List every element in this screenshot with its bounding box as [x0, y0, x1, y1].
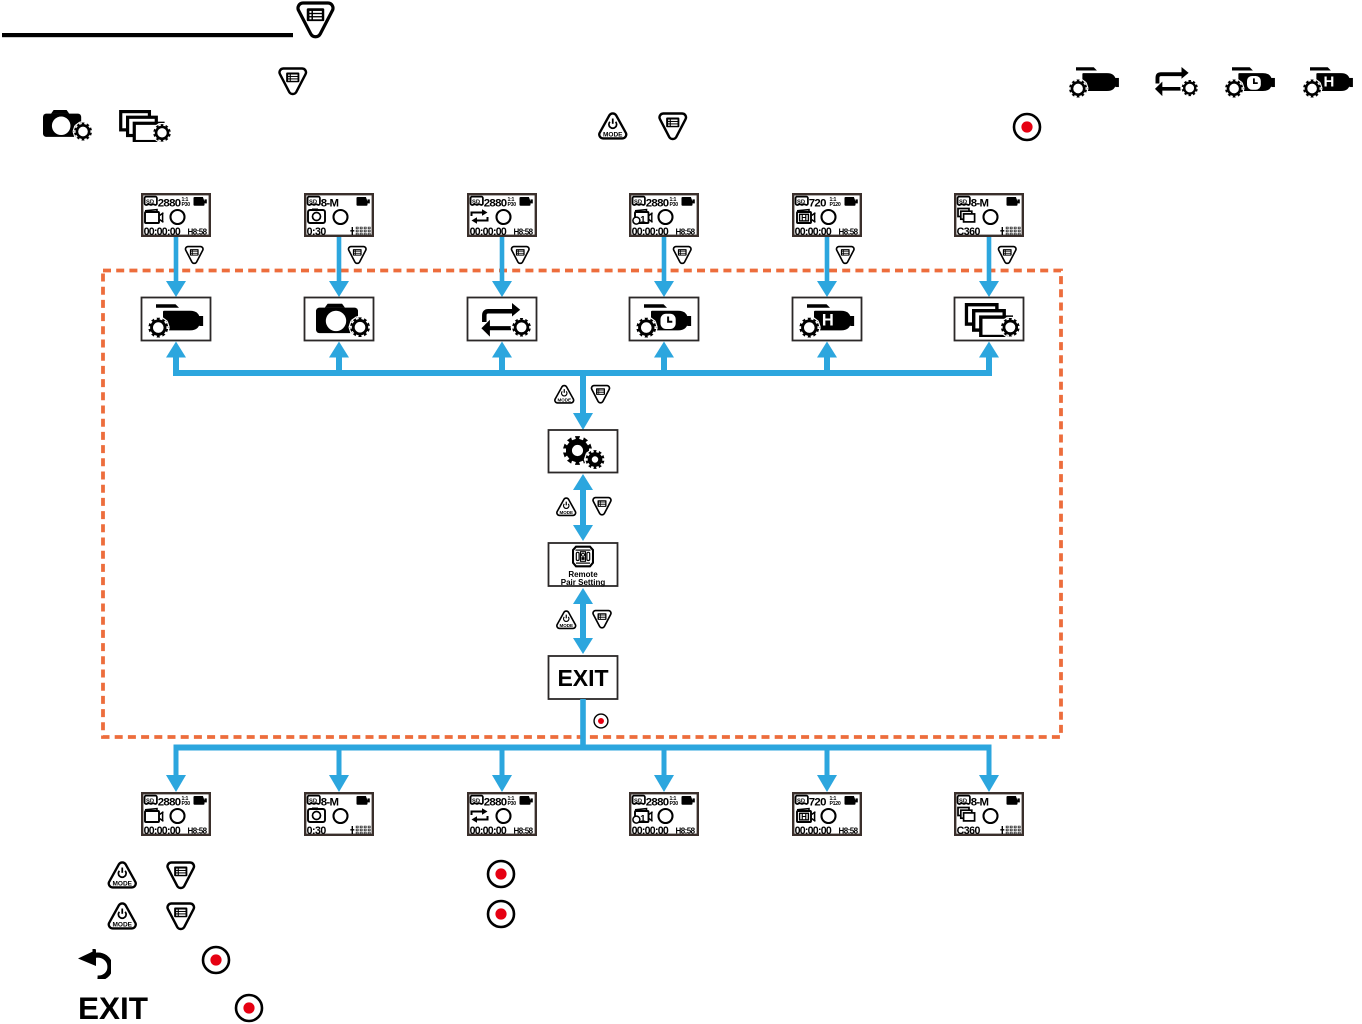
movie settings mode box — [142, 298, 211, 341]
blue arrow LCD to movie box — [166, 237, 186, 297]
burst settings icon (box) — [966, 305, 1019, 337]
EXIT label — [557, 665, 608, 691]
LCD screen bottom (movie mode) — [142, 793, 210, 837]
blue up arrow into interval box — [654, 342, 674, 374]
MENU icon row2 — [168, 904, 194, 929]
small MENU icon (interval column) — [674, 247, 691, 264]
blue up arrow into burst box — [979, 342, 999, 374]
remote pair icon — [573, 547, 593, 567]
blue arrow to bottom LCD (high-speed) — [817, 750, 837, 792]
LCD screen bottom (high-speed mode) — [793, 793, 861, 837]
small MENU icon (to settings) — [592, 386, 610, 403]
LCD screen bottom (interval mode) — [630, 793, 698, 837]
EXIT box — [549, 656, 618, 699]
LCD screen bottom (burst mode) — [955, 793, 1023, 837]
movie settings icon (inline) — [1069, 67, 1119, 97]
orange dashed region — [103, 271, 1061, 738]
blue up arrow into photo box — [329, 342, 349, 374]
loop settings mode box — [468, 298, 537, 341]
burst settings mode box — [955, 298, 1024, 341]
photo settings icon (inline) — [43, 110, 92, 140]
REC button icon (line 3) — [1014, 114, 1040, 140]
blue arrow to bottom LCD (movie) — [166, 750, 186, 792]
LCD screen top (interval mode) — [630, 194, 698, 238]
interval settings icon (box) — [636, 304, 691, 337]
loop settings icon (inline) — [1155, 67, 1198, 96]
small MODE icon (exit) — [557, 611, 576, 628]
MODE icon row1 — [109, 862, 136, 887]
small MODE icon (to settings) — [555, 386, 574, 403]
small MENU icon (exit) — [593, 611, 611, 628]
small MENU icon (pair) — [593, 498, 611, 515]
blue arrow LCD to interval box — [654, 237, 674, 297]
interval settings mode box — [630, 298, 699, 341]
small MENU icon (photo column) — [349, 247, 366, 264]
high-speed settings icon (inline) — [1303, 67, 1353, 97]
blue arrow LCD to high-speed box — [817, 237, 837, 297]
camera settings box — [549, 430, 618, 473]
MENU button icon (line 2) — [280, 69, 306, 94]
LCD screen bottom (photo mode) — [305, 793, 373, 837]
small REC icon (exit line) — [594, 714, 608, 728]
high-speed settings mode box — [793, 298, 862, 341]
double arrow pair/exit — [573, 588, 593, 654]
title rule — [2, 33, 293, 37]
MENU icon row1 — [168, 863, 194, 888]
blue up arrow into movie box — [166, 342, 186, 374]
blue arrow to bottom LCD (photo) — [329, 750, 349, 792]
LCD screen top (photo mode) — [305, 194, 373, 238]
blue up arrow into loop box — [492, 342, 512, 374]
LCD screen top (burst mode) — [955, 194, 1023, 238]
REC icon row2 — [488, 901, 514, 927]
loop settings icon (box) — [481, 303, 530, 337]
REC icon row1 — [488, 861, 514, 887]
double arrow settings/pair — [573, 474, 593, 541]
REC icon row4 — [236, 995, 262, 1021]
blue arrow LCD to photo box — [329, 237, 349, 297]
REC icon row3 — [203, 947, 229, 973]
svg-text:EXIT: EXIT — [78, 990, 148, 1024]
small MENU icon (burst column) — [999, 247, 1016, 264]
movie settings icon (box) — [148, 304, 203, 337]
Remote Pair Setting box — [549, 543, 618, 586]
blue arrow to bottom LCD (interval) — [654, 750, 674, 792]
LCD screen top (high-speed mode) — [793, 194, 861, 238]
small MENU icon (movie column) — [186, 247, 203, 264]
small MENU icon (loop column) — [512, 247, 529, 264]
small MODE icon (pair) — [557, 498, 576, 515]
LCD screen top (loop mode) — [468, 194, 536, 238]
burst settings icon (inline) — [121, 112, 171, 142]
blue arrow LCD to loop box — [492, 237, 512, 297]
svg-text:Pair Setting: Pair Setting — [561, 578, 606, 587]
MENU button icon (title) — [298, 3, 333, 37]
horizontal connector (top) — [173, 370, 992, 376]
MENU button icon (line 3) — [660, 114, 686, 139]
line EXIT to bottom connector — [580, 699, 586, 750]
photo settings icon (box) — [316, 304, 370, 337]
horizontal connector (bottom) — [174, 745, 992, 751]
blue arrow to bottom LCD (loop) — [492, 750, 512, 792]
back arrow icon — [78, 949, 110, 978]
photo settings mode box — [305, 298, 374, 341]
MODE button icon (line 3) — [599, 113, 626, 138]
LCD screen bottom (loop mode) — [468, 793, 536, 837]
blue arrow to camera settings box — [573, 372, 593, 430]
interval settings icon (inline) — [1225, 67, 1275, 97]
high-speed settings icon (box) — [799, 304, 854, 337]
LCD screen top (movie mode) — [142, 194, 210, 238]
blue arrow LCD to burst box — [979, 237, 999, 297]
svg-text:EXIT: EXIT — [557, 665, 608, 691]
small MENU icon (high-speed column) — [837, 247, 854, 264]
gears icon (camera settings) — [563, 436, 604, 469]
MODE icon row2 — [109, 903, 136, 928]
blue up arrow into high-speed box — [817, 342, 837, 374]
blue arrow to bottom LCD (burst) — [979, 750, 999, 792]
